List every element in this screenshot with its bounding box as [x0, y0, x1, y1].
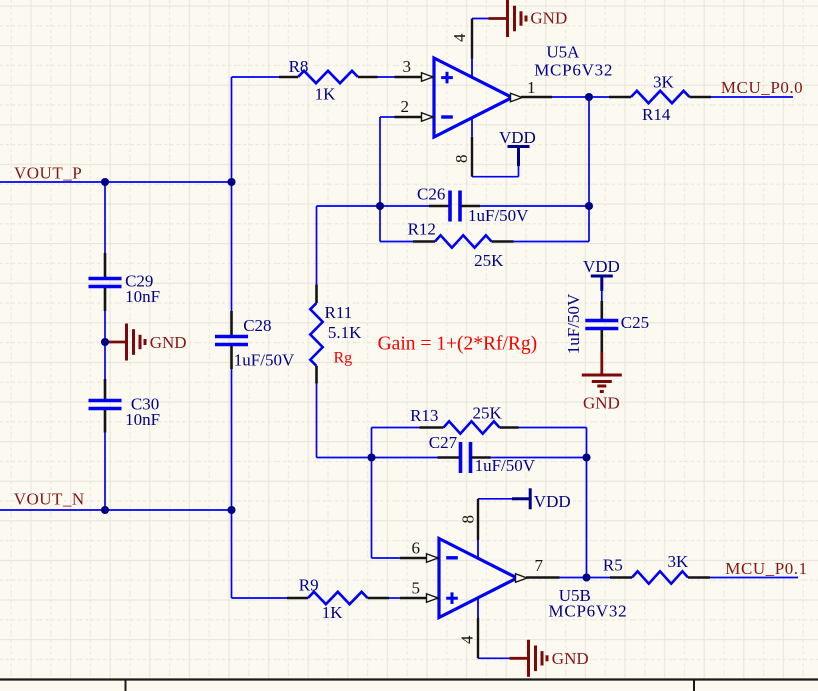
capacitor C25 — [600, 301, 603, 320]
op-amp U5B minus — [446, 556, 458, 559]
op-amp U5A minus — [441, 115, 453, 118]
resistor R9 — [287, 597, 308, 600]
op-amp U5B plus — [446, 597, 458, 600]
wire pin1 to junction — [552, 96, 589, 98]
wire R13 loop left — [371, 428, 373, 458]
svg-text:1: 1 — [527, 78, 536, 97]
junction VOUT_N / C30 — [101, 506, 109, 514]
op-amp U5A pin1 output — [521, 96, 552, 98]
svg-text:5: 5 — [412, 579, 421, 598]
wire pin4 U5B to GND — [478, 657, 510, 659]
resistor R12 — [413, 240, 435, 243]
svg-text:1uF/50V: 1uF/50V — [468, 206, 529, 225]
svg-text:MCU_P0.1: MCU_P0.1 — [725, 559, 807, 578]
op-amp U5B pin7 output — [526, 576, 560, 578]
svg-text:R9: R9 — [299, 575, 319, 594]
svg-text:25K: 25K — [474, 251, 504, 270]
wire VOUT_P to R8 riser — [231, 77, 233, 182]
svg-text:R11: R11 — [325, 303, 353, 322]
wire VOUT_N rail — [0, 509, 232, 511]
svg-text:1uF/50V: 1uF/50V — [234, 350, 295, 369]
svg-text:10nF: 10nF — [125, 410, 160, 429]
svg-text:3K: 3K — [653, 72, 675, 91]
junction output U5A rail — [585, 93, 593, 101]
wire VDD C25 — [601, 291, 603, 301]
power VDD (U5A pin8) — [508, 145, 530, 148]
power VDD (U5B pin8) — [529, 488, 532, 509]
junction Rg / R13 / C27 / pin6 — [367, 453, 375, 461]
junction pin2 / C26 / R11 — [376, 202, 384, 210]
svg-text:R5: R5 — [603, 556, 623, 575]
capacitor C26 — [429, 205, 449, 208]
svg-text:4: 4 — [450, 33, 469, 42]
svg-text:2: 2 — [401, 97, 410, 116]
wire C26 right to rail — [480, 205, 589, 207]
svg-text:8: 8 — [452, 155, 471, 164]
svg-text:7: 7 — [535, 556, 544, 575]
svg-text:VOUT_N: VOUT_N — [14, 490, 85, 509]
capacitor C29 — [104, 253, 107, 277]
sheet border — [0, 678, 818, 680]
svg-text:C28: C28 — [243, 316, 271, 335]
wire C29-GND-C30 node — [104, 311, 106, 342]
junction C29 / C30 / GND — [101, 338, 109, 346]
junction VOUT_P / C28 / R8 — [227, 178, 235, 186]
svg-text:R8: R8 — [289, 57, 309, 76]
svg-text:3: 3 — [403, 57, 412, 76]
wire R12 drop — [379, 206, 381, 242]
junction VOUT_P / C29 — [101, 178, 109, 186]
ground GND right-mid (C25) — [600, 352, 603, 375]
wire junction to R5 — [587, 577, 611, 579]
svg-text:VOUT_P: VOUT_P — [14, 164, 82, 183]
op-amp U5B pin6 — [400, 557, 438, 559]
wire pin2 riser — [380, 116, 395, 118]
junction C27 / R13 rail — [582, 453, 590, 461]
capacitor C28 — [230, 311, 233, 336]
svg-text:Rg: Rg — [334, 349, 353, 366]
svg-text:VDD: VDD — [499, 128, 536, 147]
capacitor C30 — [104, 379, 107, 400]
junction output U5B rail — [582, 573, 590, 581]
junction C26 / R12 rail — [585, 202, 593, 210]
svg-text:MCP6V32: MCP6V32 — [549, 602, 628, 621]
wire pin8 U5A to VDD — [472, 176, 519, 178]
wire VOUT_N to R9 — [231, 510, 233, 598]
svg-text:1uF/50V: 1uF/50V — [564, 293, 583, 354]
ground GND left (C29/C30 midpoint) — [108, 341, 127, 344]
svg-text:C27: C27 — [429, 433, 458, 452]
svg-text:MCP6V32: MCP6V32 — [534, 60, 613, 79]
svg-text:10nF: 10nF — [125, 287, 160, 306]
svg-text:VDD: VDD — [534, 492, 571, 511]
svg-text:GND: GND — [583, 394, 620, 413]
wire R12 right to rail — [514, 241, 590, 243]
svg-text:8: 8 — [459, 515, 478, 524]
op-amp U5B triangle — [439, 539, 517, 618]
resistor R14 — [609, 96, 631, 99]
resistor R13 — [420, 426, 444, 429]
wire R13 right — [519, 427, 587, 429]
svg-text:4: 4 — [458, 635, 477, 644]
svg-text:5.1K: 5.1K — [328, 323, 362, 342]
svg-text:R12: R12 — [408, 220, 436, 239]
resistor R11 — [315, 285, 318, 304]
wire C28 top — [231, 182, 233, 311]
op-amp U5B pin8 stub — [477, 540, 479, 558]
svg-text:C26: C26 — [417, 184, 445, 203]
wire R5 to MCU_P0.1 — [710, 577, 798, 579]
svg-text:1uF/50V: 1uF/50V — [475, 456, 536, 475]
op-amp U5A pin3 — [395, 76, 434, 78]
svg-text:1K: 1K — [322, 603, 344, 622]
op-amp U5A pin4 stub — [471, 59, 473, 79]
op-amp U5B pin4 stub — [477, 598, 479, 619]
svg-text:GND: GND — [150, 333, 187, 352]
wire C29 top — [104, 182, 106, 253]
wire C26 left lead joint — [380, 205, 429, 207]
svg-text:GND: GND — [552, 649, 589, 668]
wire pin7 to junction — [560, 577, 587, 579]
wire pin4 U5A to GND — [472, 18, 489, 20]
wire R11 bottom (Rg) — [316, 384, 318, 458]
wire C28 bottom — [231, 369, 233, 510]
resistor R5 — [610, 576, 632, 579]
capacitor C27 — [438, 456, 460, 459]
ground GND bottom (U5B pin4) — [510, 657, 529, 660]
op-amp U5B pin5 — [400, 597, 438, 599]
op-amp U5A pin2 — [395, 116, 434, 118]
wire R8 to pin3 — [378, 76, 395, 78]
wire R14 to MCU_P0.0 — [711, 96, 793, 98]
wire junction to R14 — [589, 96, 609, 98]
svg-text:25K: 25K — [473, 403, 503, 422]
svg-text:R13: R13 — [410, 406, 438, 425]
wire pin6 riser — [371, 458, 373, 559]
wire C30 bottom — [104, 433, 106, 511]
wire VOUT_P rail — [0, 181, 232, 183]
svg-text:6: 6 — [412, 539, 421, 558]
resistor R8 — [279, 76, 298, 79]
svg-text:GND: GND — [530, 9, 567, 28]
wire right rail upper (output to R12) — [588, 97, 590, 242]
svg-text:Gain = 1+(2*Rf/Rg): Gain = 1+(2*Rf/Rg) — [378, 334, 538, 355]
wire C27 left lead joint — [372, 457, 438, 459]
power VDD (C25 top) — [591, 275, 613, 278]
svg-text:1K: 1K — [315, 85, 337, 104]
wire R9 to pin5 — [389, 597, 400, 599]
svg-text:R14: R14 — [642, 105, 671, 124]
wire R11 top from C26 row — [316, 206, 318, 285]
op-amp U5A pin8 stub — [471, 117, 473, 137]
wire pin8 U5B to VDD — [478, 498, 512, 500]
ground GND top (U5A pin4) — [489, 17, 508, 20]
svg-text:3K: 3K — [668, 552, 690, 571]
junction VOUT_N / C28 / R9 — [227, 506, 235, 514]
svg-text:MCU_P0.0: MCU_P0.0 — [721, 78, 803, 97]
wire right rail lower (R13/C27 to U5B out) — [586, 428, 588, 578]
svg-text:VDD: VDD — [583, 257, 620, 276]
op-amp U5A triangle — [434, 58, 512, 137]
wire C27 right — [491, 457, 587, 459]
svg-text:U5A: U5A — [546, 43, 580, 62]
svg-text:C25: C25 — [621, 313, 649, 332]
op-amp U5A plus — [441, 76, 453, 79]
wire C26 row left — [317, 205, 381, 207]
